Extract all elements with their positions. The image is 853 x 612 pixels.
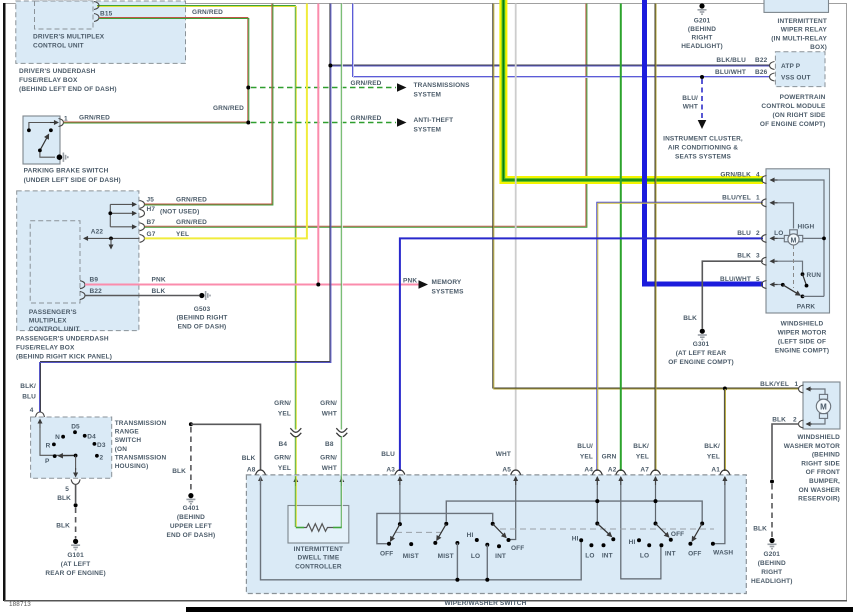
svg-text:WIPER MOTOR: WIPER MOTOR — [778, 330, 827, 337]
contact dot — [49, 128, 53, 132]
svg-text:LO: LO — [585, 553, 594, 560]
junction dot G401/A8 — [189, 422, 193, 426]
arrow transmissions system — [397, 83, 407, 92]
svg-text:GRN/: GRN/ — [274, 455, 291, 462]
wire parking brake internal lower — [40, 150, 55, 157]
wafer 3 common dot — [491, 522, 495, 526]
connector pin H7 — [140, 209, 145, 217]
svg-text:P: P — [45, 458, 50, 465]
svg-text:1: 1 — [756, 195, 760, 202]
intermittent dwell time controller box — [288, 506, 349, 544]
svg-text:AIR CONDITIONING &: AIR CONDITIONING & — [668, 145, 738, 152]
wafer 2 LO contact with riser — [485, 543, 489, 547]
mechanical link dashes (left) — [396, 531, 446, 533]
connector A3 — [395, 470, 405, 475]
svg-text:BLK: BLK — [772, 417, 786, 424]
connector pin 4 wiper motor — [762, 176, 767, 184]
wafer 6 OFF contact — [688, 542, 692, 546]
svg-text:N: N — [55, 434, 60, 441]
wafer 4 HI contact — [579, 538, 583, 542]
ground G301 — [700, 329, 705, 334]
windshield wiper motor box — [766, 169, 830, 313]
wafer 5 LO contact — [647, 543, 651, 547]
wafer 1 MIST contact — [409, 542, 413, 546]
svg-text:G301: G301 — [693, 341, 710, 348]
junction dot GRN/RED lower — [246, 121, 250, 125]
svg-text:2: 2 — [756, 230, 760, 237]
wafer 3 OFF contact — [507, 538, 511, 542]
wafer 2 HI contact — [475, 538, 479, 542]
svg-text:1: 1 — [64, 116, 68, 123]
svg-text:WHT: WHT — [322, 465, 337, 472]
pin 2 arrow washer — [807, 423, 813, 425]
connector pin 5 wiper motor — [762, 281, 767, 289]
svg-text:TRANSMISSION: TRANSMISSION — [115, 420, 167, 427]
svg-text:CONTROLLER: CONTROLLER — [295, 563, 342, 570]
svg-text:PNK: PNK — [403, 278, 417, 285]
svg-text:INTERMITTENT: INTERMITTENT — [294, 546, 343, 553]
wafer 2 arm — [437, 524, 447, 540]
wiper motor M symbol — [784, 235, 789, 241]
junction dot PNK — [316, 283, 320, 287]
connector pin B9 — [80, 281, 85, 289]
svg-text:G201: G201 — [694, 18, 711, 25]
connector pin (driver's multiplex top) — [94, 2, 99, 10]
svg-text:PARK: PARK — [797, 304, 816, 311]
connector pin G7 — [140, 234, 145, 242]
svg-text:END OF DASH): END OF DASH) — [167, 532, 216, 539]
svg-text:SYSTEM: SYSTEM — [414, 91, 442, 98]
svg-text:(BEHIND: (BEHIND — [812, 452, 840, 459]
svg-text:A5: A5 — [502, 467, 511, 474]
svg-text:GRN/RED: GRN/RED — [351, 115, 382, 122]
svg-text:BLU: BLU — [381, 451, 395, 458]
svg-text:J5: J5 — [147, 197, 155, 204]
svg-text:HI: HI — [467, 532, 474, 539]
park switch arm — [783, 285, 800, 295]
svg-text:B15: B15 — [100, 11, 113, 18]
arrow anti-theft system — [397, 118, 407, 127]
wire selector to pin 5 — [75, 456, 77, 471]
connector pin B22 ATP P — [770, 62, 775, 70]
wafer 6 common dot — [700, 522, 704, 526]
svg-text:VSS OUT: VSS OUT — [781, 75, 811, 82]
wire A7 inside switch box — [655, 477, 657, 522]
connector A5 — [511, 470, 521, 475]
svg-text:A3: A3 — [386, 467, 395, 474]
svg-text:BLK/: BLK/ — [633, 443, 649, 450]
svg-text:MULTIPLEX: MULTIPLEX — [29, 318, 67, 325]
svg-text:RANGE: RANGE — [115, 429, 140, 436]
svg-text:WHT: WHT — [683, 104, 698, 111]
ground G401 — [188, 493, 193, 498]
wiper motor internal pin 2 wire — [775, 237, 785, 239]
connector pin 5 transmission range switch — [71, 479, 80, 484]
wafer 5 common dot — [654, 522, 658, 526]
page bottom border — [4, 600, 847, 602]
wire parking brake internal pin 1 — [29, 123, 52, 131]
wafer 4 common dot — [595, 522, 599, 526]
contact dot D4 — [83, 434, 87, 438]
svg-text:BLU/YEL: BLU/YEL — [722, 195, 751, 202]
svg-text:B4: B4 — [279, 441, 288, 448]
case ground parking brake — [57, 154, 63, 160]
svg-text:BLU: BLU — [737, 230, 751, 237]
svg-text:A2: A2 — [608, 467, 617, 474]
wire BLK pin 5 — [75, 484, 77, 503]
wafer 1 OFF contact — [387, 542, 391, 546]
wire BLK washer pin 2 to G201 — [772, 424, 799, 479]
svg-text:G401: G401 — [183, 505, 200, 512]
dashed wire BLU/WHT to instrument cluster — [701, 79, 703, 119]
svg-text:BLU/: BLU/ — [577, 443, 593, 450]
svg-text:YEL: YEL — [176, 231, 189, 238]
svg-text:ON WASHER: ON WASHER — [799, 487, 841, 494]
wiper motor internal pin 1 wire — [775, 203, 794, 229]
dashed wire BLK to G201 — [771, 484, 773, 538]
B4 wire entry arrow — [295, 478, 297, 486]
svg-text:WINDSHIELD: WINDSHIELD — [781, 321, 824, 328]
svg-text:2: 2 — [100, 455, 104, 462]
bus wafer2 top rail — [446, 501, 702, 521]
junction dot BLK/YEL — [723, 387, 727, 391]
svg-text:A22: A22 — [91, 229, 104, 236]
selector arm to P — [59, 455, 76, 457]
svg-text:OF ENGINE COMPT): OF ENGINE COMPT) — [760, 121, 826, 128]
svg-text:GRN/: GRN/ — [320, 400, 337, 407]
junction dot bus A4 — [595, 499, 599, 503]
svg-text:(UNDER LEFT SIDE OF DASH): (UNDER LEFT SIDE OF DASH) — [24, 177, 121, 184]
wire BLK to A8 — [191, 424, 261, 470]
junction dot BLU/WHT — [700, 75, 704, 79]
svg-text:RESERVOIR): RESERVOIR) — [798, 496, 840, 503]
wire PNK vertical to top — [317, 4, 319, 285]
svg-text:YEL: YEL — [278, 410, 291, 417]
svg-text:SEATS SYSTEMS: SEATS SYSTEMS — [675, 154, 732, 161]
wire BLU/WHT thick highlighted — [645, 0, 764, 284]
wafer 5 OFF contact — [669, 538, 673, 542]
svg-text:HEADLIGHT): HEADLIGHT) — [681, 43, 723, 50]
svg-text:BLK: BLK — [242, 455, 256, 462]
svg-text:GRN/RED: GRN/RED — [176, 219, 207, 226]
svg-text:B26: B26 — [755, 69, 768, 76]
svg-text:BUMPER,: BUMPER, — [809, 478, 840, 485]
contact dot — [27, 128, 31, 132]
svg-text:G101: G101 — [67, 552, 84, 559]
svg-text:YEL: YEL — [707, 453, 720, 460]
svg-text:WHT: WHT — [496, 451, 511, 458]
wafer 4 arm end dot — [611, 537, 615, 541]
wire BLK pin 3 to G301 — [702, 261, 763, 328]
svg-text:OFF: OFF — [688, 551, 701, 558]
wafer 1 arm — [391, 524, 400, 541]
svg-text:(ON RIGHT SIDE: (ON RIGHT SIDE — [772, 112, 826, 119]
dashed wire BLK to G401 — [190, 427, 192, 493]
svg-text:GRN/RED: GRN/RED — [351, 80, 382, 87]
wiper motor internal pin 4 wire — [775, 180, 824, 296]
page right border — [846, 3, 847, 601]
svg-text:4: 4 — [30, 407, 34, 414]
wire A1 inside switch box — [714, 477, 725, 544]
svg-text:YEL: YEL — [580, 453, 593, 460]
connector A8 — [256, 470, 266, 475]
junction dot A22 — [109, 237, 113, 241]
wire BLK/BLU from top to PCM and transmission range switch — [40, 4, 771, 413]
svg-text:GRN/: GRN/ — [320, 455, 337, 462]
wire BLU/WHT B26 — [353, 4, 771, 78]
inline connector B8 — [336, 428, 347, 432]
svg-text:BLU/WHT: BLU/WHT — [720, 276, 751, 283]
svg-text:GRN/RED: GRN/RED — [176, 197, 207, 204]
svg-text:A1: A1 — [711, 467, 720, 474]
svg-text:BLK: BLK — [57, 495, 71, 502]
driver's multiplex control unit box — [35, 1, 94, 29]
svg-text:(LEFT SIDE OF: (LEFT SIDE OF — [778, 339, 826, 346]
svg-text:5: 5 — [65, 486, 69, 493]
svg-text:RIGHT: RIGHT — [692, 35, 713, 42]
svg-text:(ON: (ON — [115, 446, 128, 453]
svg-text:BLK: BLK — [56, 523, 70, 530]
svg-text:(BEHIND RIGHT KICK PANEL): (BEHIND RIGHT KICK PANEL) — [16, 354, 112, 361]
wire GRN/WHT B8 — [341, 4, 342, 528]
svg-text:BLK: BLK — [737, 253, 751, 260]
passenger's underdash fuse/relay box — [17, 191, 139, 331]
windshield washer motor box — [803, 382, 840, 429]
pin 1 arrow washer — [807, 388, 813, 390]
svg-text:RIGHT: RIGHT — [761, 569, 782, 576]
wafer 5 HI contact — [637, 538, 641, 542]
wiper motor internal pin 3 wire — [775, 261, 803, 272]
ground G101 — [73, 539, 78, 544]
svg-text:HI: HI — [572, 536, 579, 543]
run contact dot — [801, 272, 805, 276]
svg-text:5: 5 — [756, 276, 760, 283]
run arm dot — [805, 284, 809, 288]
svg-text:LO: LO — [471, 553, 480, 560]
svg-text:M: M — [791, 237, 797, 244]
wire PNK B9 — [85, 284, 420, 286]
svg-text:BLU/WHT: BLU/WHT — [715, 69, 746, 76]
svg-text:(AT LEFT REAR: (AT LEFT REAR — [676, 350, 727, 357]
connector A7 — [651, 470, 661, 475]
parking brake switch — [23, 116, 60, 164]
connector pin B22 — [80, 292, 85, 300]
wiper motor internal pin 5 wire — [775, 284, 781, 286]
wire A8 internal bus — [261, 477, 582, 580]
svg-text:LO: LO — [774, 230, 783, 237]
wire BLK/YEL to washer motor — [493, 4, 799, 390]
svg-text:OFF: OFF — [511, 545, 524, 552]
svg-text:2: 2 — [793, 417, 797, 424]
svg-text:4: 4 — [756, 172, 760, 179]
wire park contact to right rail — [803, 295, 825, 297]
svg-text:R: R — [46, 443, 51, 450]
wafer 4 INT contact — [602, 543, 606, 547]
svg-text:BLK: BLK — [753, 526, 767, 533]
svg-text:1: 1 — [795, 381, 799, 388]
wire GRN A2 — [620, 4, 622, 472]
svg-text:ATP P: ATP P — [781, 63, 801, 70]
wafer 5 INT contact — [659, 543, 663, 547]
svg-text:CONTROL UNIT: CONTROL UNIT — [29, 326, 80, 333]
svg-text:188713: 188713 — [9, 601, 31, 608]
svg-text:SYSTEMS: SYSTEMS — [432, 288, 465, 295]
contact dot R — [52, 443, 56, 447]
mechanical link dashes (right) — [500, 528, 714, 530]
pin arrow J5 — [110, 203, 136, 205]
junction dot BLK/BLU — [328, 64, 332, 68]
arrow instrument cluster — [698, 120, 707, 129]
svg-text:(BEHIND: (BEHIND — [688, 26, 716, 33]
svg-text:B22: B22 — [90, 288, 103, 295]
svg-text:GRN/RED: GRN/RED — [79, 115, 110, 122]
svg-text:WASHER MOTOR: WASHER MOTOR — [784, 443, 840, 450]
svg-text:BLK/BLU: BLK/BLU — [716, 57, 746, 64]
wire GRN/BLK thick highlighted — [503, 0, 763, 180]
mechanical link wiper motor — [793, 245, 795, 288]
pin 3 arrow — [771, 260, 778, 262]
svg-text:GRN/: GRN/ — [274, 400, 291, 407]
wire WHT to A5 — [515, 4, 517, 472]
svg-text:WIPER/WASHER SWITCH: WIPER/WASHER SWITCH — [445, 600, 527, 607]
svg-text:A8: A8 — [247, 467, 256, 474]
wire BLK B22 to G503 — [85, 295, 199, 297]
junction dot BLK — [74, 503, 78, 507]
svg-text:CONTROL MODULE: CONTROL MODULE — [761, 103, 826, 110]
svg-text:TRANSMISSIONS: TRANSMISSIONS — [414, 82, 471, 89]
svg-text:G503: G503 — [194, 306, 211, 313]
svg-text:SYSTEM: SYSTEM — [414, 126, 442, 133]
svg-text:INSTRUMENT CLUSTER,: INSTRUMENT CLUSTER, — [663, 136, 743, 143]
svg-text:WHT: WHT — [322, 410, 337, 417]
svg-text:YEL: YEL — [636, 453, 649, 460]
svg-text:PNK: PNK — [152, 277, 166, 284]
svg-text:DRIVER'S MULTIPLEX: DRIVER'S MULTIPLEX — [33, 34, 105, 41]
svg-text:HEADLIGHT): HEADLIGHT) — [751, 578, 793, 585]
wafer 5 arm — [656, 524, 669, 538]
pin 2 arrow — [771, 237, 778, 239]
svg-text:BLK/YEL: BLK/YEL — [760, 381, 789, 388]
svg-text:B7: B7 — [147, 219, 156, 226]
connector pin 4 transmission range switch — [36, 412, 45, 417]
wire GRN/RED parking brake to junction — [64, 122, 249, 123]
svg-text:FUSE/RELAY BOX: FUSE/RELAY BOX — [16, 345, 75, 352]
svg-text:B8: B8 — [325, 441, 334, 448]
svg-text:BLK/: BLK/ — [704, 443, 720, 450]
svg-text:BOX): BOX) — [810, 44, 827, 51]
wafer 3 INT contact — [497, 544, 501, 548]
svg-text:RIGHT SIDE: RIGHT SIDE — [801, 460, 840, 467]
connector pin 2 washer motor — [799, 420, 804, 428]
contact dot — [38, 149, 42, 153]
pin 4 entry arrow — [39, 420, 41, 429]
junction dot bus A7 — [654, 499, 658, 503]
wafer 6 WASH contact — [711, 542, 715, 546]
svg-text:M: M — [820, 403, 827, 412]
svg-text:UPPER LEFT: UPPER LEFT — [170, 523, 212, 530]
svg-text:MEMORY: MEMORY — [432, 279, 462, 286]
pin 1 arrow — [771, 202, 778, 204]
svg-text:PARKING BRAKE SWITCH: PARKING BRAKE SWITCH — [24, 168, 109, 175]
page left border — [3, 3, 6, 601]
stub arrow A22 down — [110, 238, 112, 248]
svg-text:END OF DASH): END OF DASH) — [178, 323, 227, 330]
wire YEL G7 to top — [145, 4, 307, 239]
junction dot motor right — [822, 237, 826, 241]
driver's underdash fuse/relay box — [16, 1, 186, 63]
switch arm parking brake — [40, 135, 49, 151]
svg-text:BLK/: BLK/ — [20, 383, 36, 390]
connector pin 2 wiper motor — [762, 234, 767, 242]
contact dot D5 — [73, 430, 77, 434]
passenger's multiplex control unit box — [30, 221, 80, 303]
wire GRN/WHT inside dwell controller — [341, 476, 342, 527]
wafer 2 MIST contact — [433, 541, 437, 545]
svg-text:WINDSHIELD: WINDSHIELD — [797, 434, 840, 441]
svg-text:BLK: BLK — [683, 315, 697, 322]
B8 wire entry arrow — [341, 478, 343, 486]
svg-text:B22: B22 — [755, 57, 768, 64]
svg-text:HI: HI — [629, 539, 636, 546]
svg-text:INT: INT — [495, 553, 506, 560]
svg-text:(BEHIND RIGHT: (BEHIND RIGHT — [176, 315, 227, 322]
wire A4 inside switch box — [596, 477, 598, 522]
svg-text:(NOT USED): (NOT USED) — [160, 209, 199, 216]
wire GRN/RED B7 to top — [145, 4, 587, 228]
svg-text:GRN/RED: GRN/RED — [192, 9, 223, 16]
svg-text:A4: A4 — [584, 467, 593, 474]
svg-text:BLU/: BLU/ — [682, 95, 698, 102]
svg-text:3: 3 — [756, 253, 760, 260]
svg-text:REAR OF ENGINE): REAR OF ENGINE) — [45, 570, 105, 577]
svg-text:INT: INT — [665, 551, 676, 558]
svg-text:BLK: BLK — [172, 468, 186, 475]
svg-text:ANTI-THEFT: ANTI-THEFT — [414, 117, 454, 124]
svg-text:ENGINE COMPT): ENGINE COMPT) — [775, 348, 829, 355]
connector pin J5 — [140, 200, 145, 208]
svg-text:PASSENGER'S: PASSENGER'S — [29, 309, 77, 316]
wire A5 inside switch box — [510, 477, 516, 540]
wafer 3 arm — [493, 524, 506, 538]
pin 5 exit arrow — [75, 468, 77, 477]
svg-text:TRANSMISSION: TRANSMISSION — [115, 454, 167, 461]
svg-text:WIPER RELAY: WIPER RELAY — [781, 27, 828, 34]
inline connector B4 — [290, 428, 301, 432]
connector pin B26 VSS OUT — [770, 73, 775, 81]
wire A3 inside switch box — [399, 477, 401, 523]
wafer 2 second contact with riser — [455, 541, 459, 545]
svg-text:SWITCH: SWITCH — [115, 437, 142, 444]
resistor — [304, 524, 333, 532]
connector pin 1 parking brake — [59, 119, 64, 127]
connector pin 1 washer motor — [799, 385, 804, 393]
svg-text:LO: LO — [640, 553, 649, 560]
connector A2 — [616, 470, 626, 475]
bottom black bar — [186, 607, 853, 612]
pivot junction dot — [74, 454, 78, 458]
junction dot BLK washer — [770, 480, 774, 484]
ground G201 bottom — [769, 538, 774, 543]
pin 5 arrow — [771, 284, 778, 286]
wire A2 inside switch box — [621, 477, 661, 579]
wire BLU/YEL pin 1 to A4 — [597, 202, 763, 471]
svg-text:D3: D3 — [97, 442, 106, 449]
ground G201 top — [699, 3, 704, 8]
contact dot N — [61, 435, 65, 439]
wire GRN/YEL from driver's multiplex to connector B4 — [97, 6, 304, 528]
svg-text:(BEHIND: (BEHIND — [758, 560, 786, 567]
wire GRN/YEL inside dwell controller — [295, 476, 296, 527]
